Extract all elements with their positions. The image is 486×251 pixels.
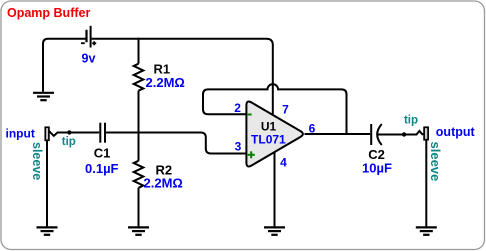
wire battery rail left to ground corner [43, 39, 86, 92]
svg-text:sleeve: sleeve [30, 142, 44, 180]
wire pin 6 output to C2 [305, 133, 371, 135]
capacitor C2 curved plate [377, 124, 382, 145]
svg-text:2: 2 [234, 101, 241, 115]
svg-text:3: 3 [235, 140, 242, 154]
wire C1 to pin 3 [106, 133, 247, 154]
wire C2 to output jack tip contact [378, 131, 425, 135]
output jack J2 body [424, 127, 428, 139]
op-amp U1 body [246, 102, 303, 167]
op-amp inverting input mark - [248, 114, 252, 116]
wire R1 bottom branch [138, 91, 140, 134]
svg-text:sleeve: sleeve [428, 142, 443, 182]
ground GND3 (R2) [128, 227, 149, 234]
svg-text:2.2MΩ: 2.2MΩ [146, 75, 185, 90]
op-amp non-inverting input mark + [248, 151, 255, 158]
svg-text:TL071: TL071 [251, 133, 286, 147]
wire input sleeve to ground [46, 140, 48, 226]
wire pin 4 to ground [274, 152, 276, 226]
svg-text:input: input [6, 126, 35, 140]
ground GND5 (output sleeve) [416, 227, 437, 234]
wire feedback pin 2 loop with hop over pin 7 wire [203, 84, 347, 134]
capacitor C1 plates [100, 123, 105, 143]
svg-text:10µF: 10µF [362, 161, 392, 176]
ground GND1 (battery negative) [33, 93, 54, 100]
svg-text:U1: U1 [261, 120, 277, 134]
wire R2 top branch [138, 133, 140, 161]
wire R1 top branch [138, 38, 140, 64]
resistor R1 [134, 64, 144, 91]
junction dot input tip node [67, 130, 71, 134]
ground GND4 (pin 4) [264, 227, 285, 234]
resistor R2 [134, 161, 144, 188]
svg-text:7: 7 [282, 103, 289, 117]
svg-text:output: output [436, 125, 476, 139]
svg-text:4: 4 [280, 156, 287, 170]
svg-text:9v: 9v [82, 51, 96, 65]
input jack tip contact and wire to C1 [49, 131, 99, 136]
wire R2 bottom to ground [138, 188, 140, 227]
battery polarity plus [92, 41, 96, 45]
battery polarity minus [81, 42, 85, 44]
svg-text:tip: tip [62, 136, 76, 148]
wire battery rail right to pin 7 [92, 39, 273, 114]
input jack J1 body [45, 127, 49, 140]
svg-text:0.1µF: 0.1µF [85, 161, 119, 176]
svg-text:2.2MΩ: 2.2MΩ [144, 176, 183, 191]
svg-text:tip: tip [404, 115, 418, 127]
wire output sleeve to ground [425, 140, 427, 227]
svg-text:Opamp Buffer: Opamp Buffer [7, 6, 90, 20]
battery B1 9v plates [87, 26, 91, 48]
junction dot output tip node [402, 132, 406, 136]
ground GND2 (input sleeve) [37, 227, 58, 234]
capacitor C2 positive plate [370, 124, 372, 145]
svg-text:C1: C1 [94, 146, 111, 161]
